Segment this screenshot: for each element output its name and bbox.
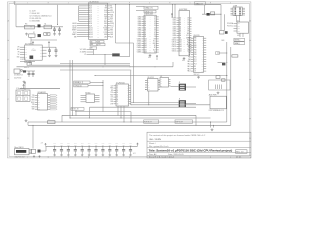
svg-text:RD: RD (91, 41, 93, 43)
svg-text:QS0: QS0 (104, 36, 107, 38)
svg-text:U5: U5 (237, 20, 239, 22)
svg-text:WR: WR (110, 8, 112, 10)
svg-text:LOCK: LOCK (110, 12, 114, 14)
svg-text:PB3: PB3 (238, 31, 241, 33)
svg-text:QS0: QS0 (110, 16, 113, 18)
svg-text:Size: A4: Size: A4 (149, 153, 157, 156)
svg-text:PB0: PB0 (238, 23, 241, 25)
svg-text:The contents of this project a: The contents of this project are license… (149, 134, 206, 137)
svg-text:CE: CE (187, 29, 189, 31)
svg-text:R1IN: R1IN (32, 100, 35, 102)
svg-text:TO: TO (38, 97, 40, 99)
svg-text:RESET: RESET (72, 30, 77, 32)
svg-text:PB2: PB2 (194, 52, 197, 54)
svg-text:D6: D6 (187, 24, 189, 26)
svg-text:D2: D2 (33, 32, 35, 34)
svg-text:RFRQ: RFRQ (110, 23, 114, 25)
svg-text:R2IN: R2IN (32, 106, 35, 108)
svg-text:100n: 100n (95, 143, 98, 145)
svg-text:CMD8: CMD8 (172, 35, 176, 37)
svg-text:BS0: BS0 (104, 23, 107, 25)
svg-text:D3 1N5819 C3: D3 1N5819 C3 (14, 74, 23, 76)
svg-text:NC: NC (25, 54, 27, 56)
svg-text:DTR: DTR (110, 103, 113, 105)
svg-text:INT: INT (111, 90, 113, 92)
svg-text:INT: INT (91, 48, 93, 50)
svg-text:Sheet: /: Sheet: / (149, 142, 156, 145)
svg-text:RD: RD (105, 5, 107, 7)
svg-text:VCC GND: VCC GND (80, 49, 86, 51)
svg-text:GND: GND (17, 57, 20, 59)
svg-text:OE: OE (154, 36, 156, 38)
svg-text:BUS SLOT: BUS SLOT (144, 122, 152, 124)
svg-text:100n: 100n (115, 143, 118, 145)
svg-text:WR: WR (105, 8, 107, 10)
svg-text:CS: CS (194, 71, 196, 73)
svg-text:NC: NC (154, 45, 156, 47)
svg-text:CMD9: CMD9 (172, 37, 176, 39)
svg-text:CTS: CTS (110, 97, 113, 99)
svg-text:GN: GN (38, 109, 40, 111)
svg-text:T2IN: T2IN (32, 104, 35, 106)
svg-text:U9 HC138: U9 HC138 (148, 77, 154, 79)
svg-text:DEN: DEN (104, 34, 107, 36)
svg-text:100n: 100n (67, 143, 70, 145)
svg-text:D4: D4 (154, 25, 156, 27)
svg-text:100n: 100n (108, 143, 111, 145)
svg-text:CMD1: CMD1 (172, 20, 176, 22)
svg-text:U4 SST39SF: U4 SST39SF (179, 9, 187, 11)
svg-text:CMD3: CMD3 (172, 24, 176, 26)
svg-text:POLL: POLL (110, 25, 114, 27)
svg-text:VO: VO (40, 50, 42, 52)
svg-text:D3: D3 (154, 23, 156, 25)
svg-text:CLKO: CLKO (73, 32, 77, 34)
svg-text:DT/R: DT/R (104, 32, 107, 34)
svg-text:D1: D1 (154, 19, 156, 21)
svg-text:PB3: PB3 (194, 54, 197, 56)
svg-text:CLK: CLK (98, 44, 101, 46)
svg-text:USB-PWR ONLY: USB-PWR ONLY (15, 157, 25, 159)
svg-text:GND: GND (182, 60, 185, 62)
svg-text:C1 100uF 16V: C1 100uF 16V (30, 13, 41, 15)
svg-text:PB0: PB0 (194, 47, 197, 49)
svg-text:CMD10: CMD10 (172, 40, 177, 42)
svg-text:Date: 2020-05-05: Date: 2020-05-05 (168, 153, 184, 156)
svg-text:RD: RD (110, 5, 112, 7)
svg-text:CMD12: CMD12 (172, 44, 177, 46)
svg-text:CMD13: CMD13 (172, 46, 177, 48)
svg-text:DEN: DEN (110, 34, 113, 36)
svg-text:D7: D7 (154, 32, 156, 34)
svg-text:D2: D2 (154, 21, 156, 23)
svg-text:CMD7: CMD7 (172, 33, 176, 35)
svg-text:B: B (250, 60, 251, 62)
svg-text:R1OU: R1OU (31, 102, 35, 104)
svg-text:EXP SLOT: EXP SLOT (176, 122, 183, 124)
svg-text:CTRL[0..3]: CTRL[0..3] (74, 85, 82, 87)
svg-text:RES: RES (104, 14, 107, 16)
svg-text:RD: RD (194, 66, 196, 68)
svg-text:J4 ISP: J4 ISP (233, 5, 237, 7)
svg-text:D1: D1 (117, 88, 119, 90)
svg-text:R1 10k 1/4W 5%: R1 10k 1/4W 5% (30, 18, 42, 20)
svg-text:G2 1: G2 1 (133, 153, 136, 155)
svg-text:GND: GND (32, 109, 35, 111)
svg-text:Id: 1/1: Id: 1/1 (236, 157, 241, 159)
svg-text:RES: RES (110, 30, 113, 32)
svg-text:RXD: RXD (110, 94, 113, 96)
svg-text:CMD[0..15]: CMD[0..15] (145, 11, 154, 13)
svg-text:DSR: DSR (110, 101, 113, 103)
svg-text:X2: X2 (84, 54, 86, 56)
svg-text:CLK: CLK (104, 12, 107, 14)
svg-text:WE: WE (187, 33, 189, 35)
svg-text:NC: NC (154, 47, 156, 49)
svg-text:CMD5: CMD5 (172, 29, 176, 31)
svg-text:HLD: HLD (110, 32, 113, 34)
svg-text:BS2: BS2 (110, 21, 113, 23)
svg-text:File: system16-v1.sch: File: system16-v1.sch (149, 145, 168, 148)
svg-text:PC1: PC1 (194, 59, 197, 61)
svg-text:CMD11: CMD11 (172, 42, 177, 44)
svg-text:CMD4: CMD4 (172, 26, 176, 28)
svg-text:RES: RES (110, 88, 113, 90)
svg-text:RTS: RTS (111, 99, 114, 101)
svg-text:D7: D7 (117, 101, 119, 103)
svg-text:100n: 100n (122, 143, 125, 145)
svg-text:U2 LT1084: U2 LT1084 (25, 43, 32, 45)
svg-text:D0: D0 (117, 85, 119, 87)
svg-text:R2: R2 (45, 24, 47, 26)
svg-text:D5: D5 (187, 22, 189, 24)
svg-text:PB1: PB1 (194, 49, 197, 51)
svg-text:CE: CE (154, 34, 156, 36)
svg-text:100uF GND: 100uF GND (14, 78, 21, 80)
svg-text:INT: INT (105, 19, 107, 21)
svg-text:CMD14: CMD14 (172, 48, 177, 50)
svg-text:GN: GN (25, 57, 27, 59)
svg-text:RO: RO (38, 102, 40, 104)
svg-text:NC: NC (18, 54, 20, 56)
svg-text:Micro USB 5V: Micro USB 5V (15, 147, 24, 149)
svg-text:ST: ST (40, 53, 42, 55)
svg-text:BUS: BUS (222, 40, 225, 42)
svg-text:100n: 100n (129, 143, 132, 145)
svg-text:J1 DC 9V: J1 DC 9V (20, 59, 26, 61)
svg-text:D2: D2 (117, 90, 119, 92)
svg-text:TXD: TXD (110, 92, 113, 94)
svg-text:GND: GND (148, 57, 151, 59)
svg-text:C: C (148, 84, 149, 86)
svg-text:WE: WE (154, 38, 156, 40)
svg-text:PB2: PB2 (238, 28, 241, 30)
svg-text:B: B (8, 60, 9, 62)
svg-text:M/IO: M/IO (110, 10, 113, 12)
svg-text:PB1: PB1 (238, 26, 241, 28)
svg-text:D4: D4 (187, 20, 189, 22)
svg-text:BS1: BS1 (104, 25, 107, 27)
svg-text:100n: 100n (53, 143, 56, 145)
svg-text:U8 7404: U8 7404 (85, 92, 90, 94)
svg-text:Title: System16-v1 µPD70116 SB: Title: System16-v1 µPD70116 SBC (Old CPU… (149, 149, 233, 153)
svg-text:KiCad E.D.A. kicad (5.1.5)-3: KiCad E.D.A. kicad (5.1.5)-3 (149, 156, 175, 159)
svg-text:Rev: 1.0: Rev: 1.0 (236, 152, 243, 154)
svg-text:PG: PG (40, 56, 42, 58)
svg-text:PC3: PC3 (194, 64, 197, 66)
svg-text:GND VCC: GND VCC (194, 74, 200, 76)
svg-text:100n: 100n (102, 143, 105, 145)
svg-text:VCC: VCC (186, 35, 189, 37)
svg-text:PC5 SCL: PC5 SCL (227, 26, 233, 28)
svg-text:VO: VO (40, 47, 42, 49)
svg-text:D3: D3 (187, 18, 189, 20)
svg-text:EN: EN (18, 52, 20, 54)
svg-text:EN: EN (25, 52, 27, 54)
svg-text:WR: WR (194, 68, 196, 70)
svg-text:2: 2 (68, 2, 69, 4)
svg-text:D6: D6 (117, 99, 119, 101)
svg-text:5: 5 (190, 2, 191, 4)
svg-text:D7: D7 (187, 26, 189, 28)
svg-text:D5: D5 (117, 97, 119, 99)
svg-text:FB1: FB1 (25, 24, 28, 26)
svg-text:VCC: VCC (153, 41, 156, 43)
svg-text:T1OU: T1OU (31, 97, 35, 99)
svg-text:2: 2 (68, 157, 69, 159)
svg-text:U10 8255: U10 8255 (194, 35, 200, 37)
svg-text:100n: 100n (60, 143, 63, 145)
svg-text:WR: WR (98, 41, 100, 43)
svg-text:+5V: +5V (41, 142, 43, 144)
svg-text:CMD2: CMD2 (172, 22, 176, 24)
svg-text:VIN: VIN (17, 47, 19, 49)
svg-text:GND: GND (153, 43, 156, 45)
svg-text:CS: CS (117, 103, 119, 105)
svg-text:D0: D0 (154, 16, 156, 18)
svg-text:OHL / CERN: OHL / CERN (149, 139, 161, 141)
svg-text:CMD6: CMD6 (172, 31, 176, 33)
svg-text:X1 16MHz: X1 16MHz (80, 52, 87, 54)
svg-text:CMD0: CMD0 (172, 18, 176, 20)
svg-text:D0: D0 (154, 52, 156, 54)
svg-text:OE: OE (187, 31, 189, 33)
svg-text:U11: U11 (160, 76, 163, 78)
svg-text:D6: D6 (154, 30, 156, 32)
svg-text:T1IN: T1IN (32, 95, 35, 97)
svg-text:PC0: PC0 (194, 57, 197, 59)
svg-text:U1 µPD70116: U1 µPD70116 (89, 2, 99, 4)
svg-text:CLK: CLK (111, 85, 114, 87)
svg-text:100n: 100n (88, 143, 91, 145)
svg-text:CMD15: CMD15 (172, 51, 177, 53)
svg-text:U7 µPD71011: U7 µPD71011 (116, 82, 125, 84)
svg-text:D4: D4 (117, 94, 119, 96)
svg-text:100n: 100n (74, 143, 77, 145)
svg-text:L1 10uH: L1 10uH (30, 11, 36, 13)
svg-text:100n: 100n (81, 143, 84, 145)
svg-text:D5: D5 (154, 27, 156, 29)
svg-text:D3: D3 (117, 92, 119, 94)
svg-text:LT1084: LT1084 (31, 50, 36, 52)
svg-text:RDY: RDY (104, 21, 107, 23)
svg-text:GND: GND (237, 35, 240, 37)
svg-text:GND VI: GND VI (24, 67, 29, 69)
svg-text:PC2: PC2 (194, 61, 197, 63)
svg-text:CLK: CLK (110, 27, 113, 29)
